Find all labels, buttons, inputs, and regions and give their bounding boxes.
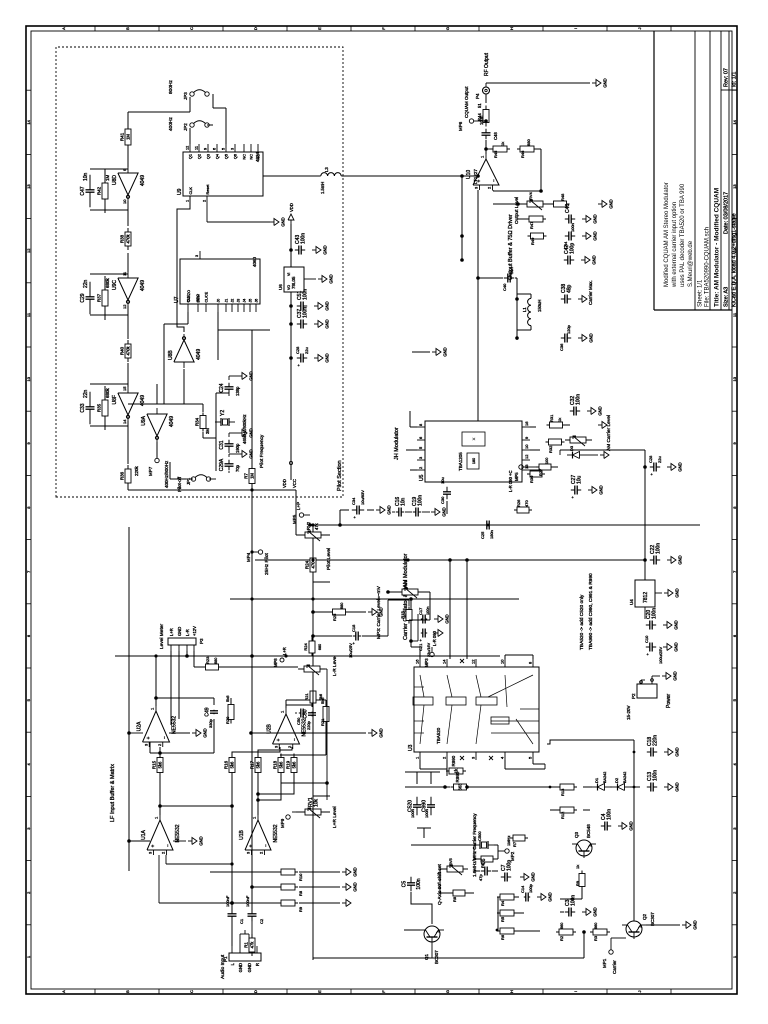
svg-text:Title: AM Modulator - Modified: Title: AM Modulator - Modified CQUAM: [714, 188, 721, 307]
ground R8a: [342, 886, 346, 888]
wire u5 bottom: [530, 449, 540, 451]
capacitor C2: [251, 916, 253, 921]
svg-text:13: 13: [732, 184, 737, 189]
resistor R16: [231, 773, 233, 777]
ground C27: [588, 489, 592, 491]
pin J0 U7: [217, 304, 219, 312]
capacitor C44: [565, 235, 569, 237]
resistor R17: [257, 773, 259, 777]
diode D2: [612, 786, 618, 788]
svg-text:Pilot Frequency: Pilot Frequency: [259, 434, 265, 468]
svg-text:GND: GND: [203, 728, 208, 737]
svg-text:R40: R40: [120, 346, 125, 355]
svg-text:U4: U4: [629, 599, 634, 605]
test point MP4: [252, 551, 258, 553]
svg-text:220n: 220n: [653, 735, 659, 746]
svg-text:GND: GND: [353, 867, 358, 876]
svg-text:R: R: [255, 963, 260, 966]
svg-text:Q1: Q1: [189, 154, 193, 159]
svg-text:GND: GND: [247, 963, 252, 972]
svg-text:VCC: VCC: [292, 479, 297, 488]
wire c30: [446, 501, 448, 514]
wire tba520 left: [419, 760, 421, 769]
wire matrix4: [232, 747, 280, 757]
ground c42: [581, 259, 585, 261]
svg-text:Rev: 07: Rev: 07: [724, 68, 730, 87]
svg-text:100n: 100n: [303, 289, 309, 300]
svg-text:GND: GND: [675, 782, 680, 791]
svg-text:R8: R8: [452, 896, 457, 902]
ground D3: [585, 454, 598, 456]
svg-text:13: 13: [524, 464, 529, 469]
svg-text:R7: R7: [244, 473, 249, 479]
pin Q4 U9: [216, 144, 218, 152]
pilot section dashed box: [56, 47, 343, 497]
ground R9a: [342, 902, 346, 904]
IC U5 TBA1205: [425, 421, 522, 482]
svg-text:C500: C500: [477, 831, 482, 841]
wire c520/c990: [417, 827, 431, 829]
svg-text:I: I: [573, 28, 578, 29]
wire lf2: [257, 959, 313, 961]
connector P4 RF out: [485, 94, 487, 103]
svg-text:Pilot-off: Pilot-off: [177, 476, 182, 492]
svg-text:R18: R18: [273, 760, 278, 769]
capacitor C36: [561, 337, 565, 339]
svg-text:10: 10: [524, 444, 529, 449]
svg-text:BA242: BA242: [623, 772, 627, 783]
resistor R48: [551, 203, 554, 205]
capacitor C38: [561, 298, 565, 300]
resistor R24: [312, 572, 314, 575]
svg-text:D: D: [253, 27, 258, 30]
svg-text:L+R: L+R: [169, 628, 174, 636]
svg-text:12: 12: [524, 454, 529, 459]
pin Q3 U9: [207, 144, 209, 152]
inverter U9A: [147, 414, 167, 436]
inverter U9C: [118, 278, 138, 300]
svg-text:A: A: [61, 990, 66, 993]
pin J4 U7: [243, 304, 245, 312]
ground u2b chain: [368, 732, 372, 734]
pin Q1 U9: [189, 144, 191, 152]
svg-text:R1: R1: [244, 942, 249, 948]
svg-text:100n: 100n: [656, 543, 662, 554]
svg-text:16: 16: [415, 659, 420, 664]
svg-text:R44: R44: [477, 113, 482, 121]
svg-text:GND: GND: [443, 347, 448, 356]
wire rv4: [493, 203, 527, 205]
svg-text:100n: 100n: [576, 394, 582, 405]
wire matrix5: [258, 747, 292, 757]
svg-text:GND: GND: [592, 255, 597, 264]
test point MP7: [156, 442, 158, 458]
svg-text:100nF: 100nF: [225, 895, 230, 907]
svg-text:R7: R7: [512, 841, 517, 847]
svg-text:5k6: 5k6: [319, 694, 323, 700]
wire c16 c19: [405, 511, 412, 513]
svg-text:150uH: 150uH: [537, 300, 542, 312]
trimmer RV5: [442, 868, 447, 870]
svg-text:10u: 10u: [577, 475, 583, 484]
svg-text:C29A: C29A: [219, 458, 225, 471]
svg-text:13: 13: [26, 184, 31, 189]
svg-text:GND: GND: [675, 588, 680, 597]
svg-text:100n: 100n: [652, 608, 658, 619]
svg-text:GND: GND: [353, 882, 358, 891]
svg-text:5k6: 5k6: [230, 761, 235, 768]
ground c44: [582, 235, 586, 237]
resistor R24b: [311, 653, 313, 656]
transistor Q1: [424, 926, 440, 942]
svg-text:10: 10: [732, 376, 737, 381]
svg-text:GND: GND: [603, 78, 608, 87]
ground r48: [567, 203, 596, 205]
svg-text:U2B: U2B: [267, 723, 273, 733]
svg-text:10u: 10u: [440, 477, 445, 484]
svg-text:CLK: CLK: [187, 295, 191, 303]
wire u10 minus input: [492, 190, 494, 204]
wire y462: [461, 176, 463, 260]
wire vdd rail: [290, 292, 292, 480]
svg-text:MP6: MP6: [458, 121, 463, 131]
svg-text:R34: R34: [195, 417, 200, 426]
svg-text:GND: GND: [379, 728, 384, 737]
svg-text:5k6: 5k6: [256, 761, 261, 768]
svg-text:Q1: Q1: [424, 953, 429, 960]
svg-text:RV3: RV3: [403, 580, 408, 588]
svg-text:R15: R15: [400, 611, 405, 619]
resistor R26: [514, 509, 517, 511]
wire u2b gnd chain: [251, 732, 366, 734]
svg-text:680: 680: [318, 644, 322, 650]
svg-text:C: C: [189, 990, 194, 993]
wire p2 feed: [641, 679, 645, 681]
capacitor C34 pilot level: [352, 509, 357, 511]
svg-text:C36: C36: [559, 343, 564, 351]
svg-text:R12: R12: [560, 811, 565, 819]
wire trunk u5 left: [310, 513, 447, 515]
svg-text:L-R Level: L-R Level: [332, 655, 338, 676]
test point MP3: [431, 647, 433, 652]
wire matrix3: [258, 773, 294, 794]
svg-text:BA242: BA242: [603, 772, 607, 783]
capacitor C20: [646, 624, 650, 626]
trimmer RV3 am carrier: [565, 439, 570, 441]
svg-text:R16: R16: [224, 760, 229, 769]
svg-text:NE5532: NE5532: [172, 716, 178, 734]
svg-text:220p: 220p: [306, 720, 311, 730]
ground C43: [312, 249, 316, 251]
wire RV1: [296, 811, 305, 813]
svg-text:BC307: BC307: [650, 912, 655, 926]
wire tba520 right risers: [419, 647, 421, 659]
wire bus to mp3: [313, 635, 352, 637]
svg-text:L-R 090 +C: L-R 090 +C: [508, 470, 513, 492]
resistor R36: [127, 483, 129, 487]
pin NC U9: [243, 144, 245, 152]
svg-text:R41: R41: [120, 132, 125, 141]
svg-text:100: 100: [545, 458, 549, 464]
svg-text:R31: R31: [549, 414, 554, 422]
svg-text:R47: R47: [529, 221, 534, 229]
svg-text:NC: NC: [243, 154, 247, 160]
wire pilot out: [127, 483, 129, 490]
capacitor C6: [481, 870, 485, 872]
svg-text:4049: 4049: [169, 416, 175, 427]
svg-text:100n: 100n: [301, 233, 307, 244]
svg-text:GND: GND: [593, 231, 598, 240]
svg-text:400Hz: 400Hz: [168, 117, 174, 131]
ground U1A: [173, 840, 186, 842]
svg-text:47p: 47p: [478, 874, 483, 881]
svg-text:C25: C25: [480, 531, 485, 539]
wire jh to u10: [477, 190, 479, 421]
U5 pins bottom: [522, 469, 530, 471]
ground r25: [368, 611, 372, 613]
svg-text:R21: R21: [304, 693, 309, 701]
ground C29A: [228, 454, 230, 457]
svg-text:R15: R15: [152, 760, 157, 769]
resistor R20 fb U2A: [230, 720, 232, 753]
svg-text:GND: GND: [629, 821, 634, 830]
svg-text:Sheet: 1/1: Sheet: 1/1: [698, 279, 704, 307]
title block: [653, 31, 655, 310]
svg-text:R24: R24: [305, 560, 310, 569]
wire audio post-c1: [231, 773, 233, 909]
svg-text:138p: 138p: [235, 386, 240, 396]
svg-text:10k: 10k: [314, 798, 320, 807]
svg-text:3: 3: [195, 255, 199, 257]
wire c36/c38: [517, 337, 560, 339]
svg-text:5k6: 5k6: [225, 695, 230, 702]
svg-text:C10: C10: [644, 635, 649, 643]
capacitor C18: [647, 751, 651, 753]
svg-text:10: 10: [122, 199, 127, 204]
wire bus LMR: [312, 525, 314, 960]
wire qam extra5: [555, 790, 557, 850]
svg-text:680: 680: [214, 658, 218, 664]
test point MP2: [505, 849, 509, 853]
wire u5 right pin: [406, 449, 417, 451]
svg-text:with external carrier input op: with external carrier input option: [672, 202, 678, 288]
TBA520 internal block C: [476, 697, 497, 705]
ground C19: [431, 511, 435, 513]
svg-text:4049: 4049: [140, 280, 146, 291]
wire power in: [644, 607, 646, 680]
capacitor C19: [413, 511, 416, 513]
svg-text:+: +: [151, 845, 157, 848]
svg-text:100p: 100p: [528, 883, 533, 893]
wire c21 cluster: [411, 640, 418, 642]
svg-text:D: D: [253, 990, 258, 993]
svg-text:uses PAL decoder TBA520 or TBA: uses PAL decoder TBA520 or TBA 990: [680, 183, 686, 287]
svg-text:JP2: JP2: [183, 123, 188, 131]
svg-text:1M: 1M: [105, 174, 110, 181]
svg-text:CL/CE: CL/CE: [205, 291, 209, 302]
svg-text:1k: 1k: [557, 418, 562, 422]
resistor R34: [202, 429, 204, 432]
wire q2 chain: [576, 931, 590, 933]
ground C34: [376, 509, 380, 511]
wire u1 inputs: [231, 908, 233, 910]
resistors R4 R5 R6: [497, 896, 500, 898]
wire tank: [478, 277, 503, 279]
capacitor C21: [646, 646, 650, 648]
resistor R27: [536, 466, 539, 468]
svg-text:330p: 330p: [208, 718, 213, 728]
IC U3 TBA520: [414, 667, 539, 752]
svg-text:VDD: VDD: [289, 203, 294, 212]
wire l1: [530, 294, 532, 298]
svg-text:U7: U7: [174, 296, 180, 303]
svg-text:R26: R26: [516, 499, 521, 507]
svg-text:−: −: [492, 179, 498, 182]
svg-text:TBA520 -> add C520 only: TBA520 -> add C520 only: [579, 594, 585, 650]
wire U1B out: [257, 773, 259, 815]
wire y327: [326, 720, 328, 800]
svg-text:Carrier Max.: Carrier Max.: [588, 280, 593, 305]
svg-text:4049: 4049: [140, 175, 146, 186]
IC U7 4060: [180, 259, 260, 304]
svg-text:GND: GND: [589, 333, 594, 342]
resistor R15: [159, 773, 161, 777]
resistor R47: [526, 218, 529, 220]
jumper JP2: [190, 123, 194, 127]
svg-text:R19: R19: [286, 760, 291, 769]
ground rv3: [598, 424, 602, 426]
svg-text:Carrier Oscillator & QAM Modul: Carrier Oscillator & QAM Modulator: [403, 553, 409, 640]
svg-text:Q3: Q3: [207, 154, 211, 159]
svg-text:R6: R6: [500, 934, 505, 940]
svg-text:15-20V: 15-20V: [626, 705, 631, 720]
pin J5 U7: [249, 304, 251, 312]
svg-text:R10: R10: [298, 873, 303, 881]
svg-text:5k6: 5k6: [158, 761, 163, 768]
svg-text:C30: C30: [440, 496, 445, 504]
pin J3 U7: [237, 304, 239, 312]
svg-text:GND: GND: [593, 214, 598, 223]
pin CLK U9: [189, 196, 191, 204]
pin Q2 U9: [198, 144, 200, 152]
wire c34: [340, 509, 349, 511]
test point MP6: [474, 120, 486, 122]
wire matrix6: [280, 747, 282, 757]
trimmer RV1 L-R level: [300, 811, 305, 813]
wire mp5: [523, 466, 539, 468]
svg-text:680k: 680k: [105, 387, 110, 398]
svg-text:TBA520: TBA520: [436, 727, 441, 744]
svg-text:R4: R4: [500, 900, 505, 906]
svg-text:400Hz/800Hz: 400Hz/800Hz: [164, 460, 169, 488]
svg-text:J2: J2: [231, 299, 235, 303]
svg-text:C28: C28: [295, 346, 300, 354]
svg-text:CLK: CLK: [189, 187, 193, 195]
pin out U7: [199, 251, 201, 259]
svg-text:CQUAM Output: CQUAM Output: [464, 86, 469, 118]
wire osc: [187, 312, 189, 324]
svg-text:GND: GND: [249, 428, 254, 437]
ground c38: [578, 298, 582, 300]
wire U1A out: [159, 773, 161, 815]
svg-text:GND: GND: [325, 353, 330, 362]
svg-text:6: 6: [213, 148, 217, 150]
svg-text:5k6: 5k6: [279, 761, 284, 768]
svg-text:J: J: [637, 28, 642, 30]
transistor Q3: [576, 840, 592, 856]
svg-text:GND: GND: [323, 245, 328, 254]
svg-text:J4: J4: [243, 299, 247, 303]
svg-text:R25: R25: [332, 613, 337, 621]
svg-text:B: B: [125, 990, 130, 993]
svg-text:GND: GND: [199, 836, 204, 845]
svg-text:22n: 22n: [83, 389, 89, 398]
svg-text:R32: R32: [548, 445, 553, 453]
pin J6 U7: [255, 304, 257, 312]
svg-text:R5: R5: [500, 916, 505, 922]
resistor R990: [446, 770, 449, 772]
resistor R40: [127, 358, 129, 362]
svg-text:C: C: [189, 27, 194, 30]
svg-text:12: 12: [186, 146, 190, 150]
ground c22: [667, 559, 671, 561]
svg-text:MP5: MP5: [514, 472, 519, 481]
svg-text:12: 12: [471, 659, 476, 664]
svg-text:U8B: U8B: [168, 350, 174, 360]
ground p2: [652, 675, 660, 677]
jumper JP1: [191, 477, 195, 481]
svg-text:1.5mH: 1.5mH: [320, 182, 325, 194]
svg-text:1M: 1M: [126, 134, 131, 140]
svg-text:23u/16V: 23u/16V: [427, 642, 431, 657]
op-amp U1A: [147, 820, 173, 850]
capacitor C43: [295, 249, 299, 251]
wire u10 out: [485, 140, 487, 154]
svg-text:9: 9: [204, 148, 208, 150]
capacitor C29: [90, 314, 128, 316]
wire u1a fb: [158, 855, 160, 903]
svg-text:TBA1205: TBA1205: [458, 452, 463, 471]
pin Q5 U9: [225, 144, 227, 152]
svg-text:R9: R9: [298, 906, 303, 912]
wire lf1: [155, 655, 157, 657]
wire to jumpers: [128, 111, 190, 113]
svg-text:MP7: MP7: [148, 466, 153, 476]
svg-text:5k6: 5k6: [292, 761, 297, 768]
op-amp U2B: [273, 714, 300, 744]
wire jh l-r in: [370, 449, 406, 451]
svg-text:R42: R42: [97, 186, 102, 195]
svg-text:GND: GND: [609, 199, 614, 208]
ground C32: [587, 410, 591, 412]
svg-text:GND: GND: [249, 371, 254, 380]
svg-text:1MHz: 1MHz: [506, 836, 511, 846]
capacitor C18b: [353, 635, 356, 637]
resistor R21 fb U2B: [325, 722, 327, 726]
ground C7: [520, 876, 524, 878]
trimmer RV3 mp3: [397, 591, 402, 593]
wire bus x464 +12V: [255, 559, 645, 561]
svg-text:C40: C40: [502, 283, 507, 291]
svg-text:Pilot Section: Pilot Section: [337, 460, 343, 491]
resistor R9: [581, 887, 583, 890]
svg-text:14: 14: [26, 119, 31, 124]
svg-text:LF Input Buffer & Matrix: LF Input Buffer & Matrix: [110, 764, 116, 822]
resistor R23: [203, 666, 206, 668]
pin J1 U7: [225, 304, 227, 312]
svg-text:C18: C18: [351, 624, 356, 632]
svg-text:100n: 100n: [653, 770, 659, 781]
